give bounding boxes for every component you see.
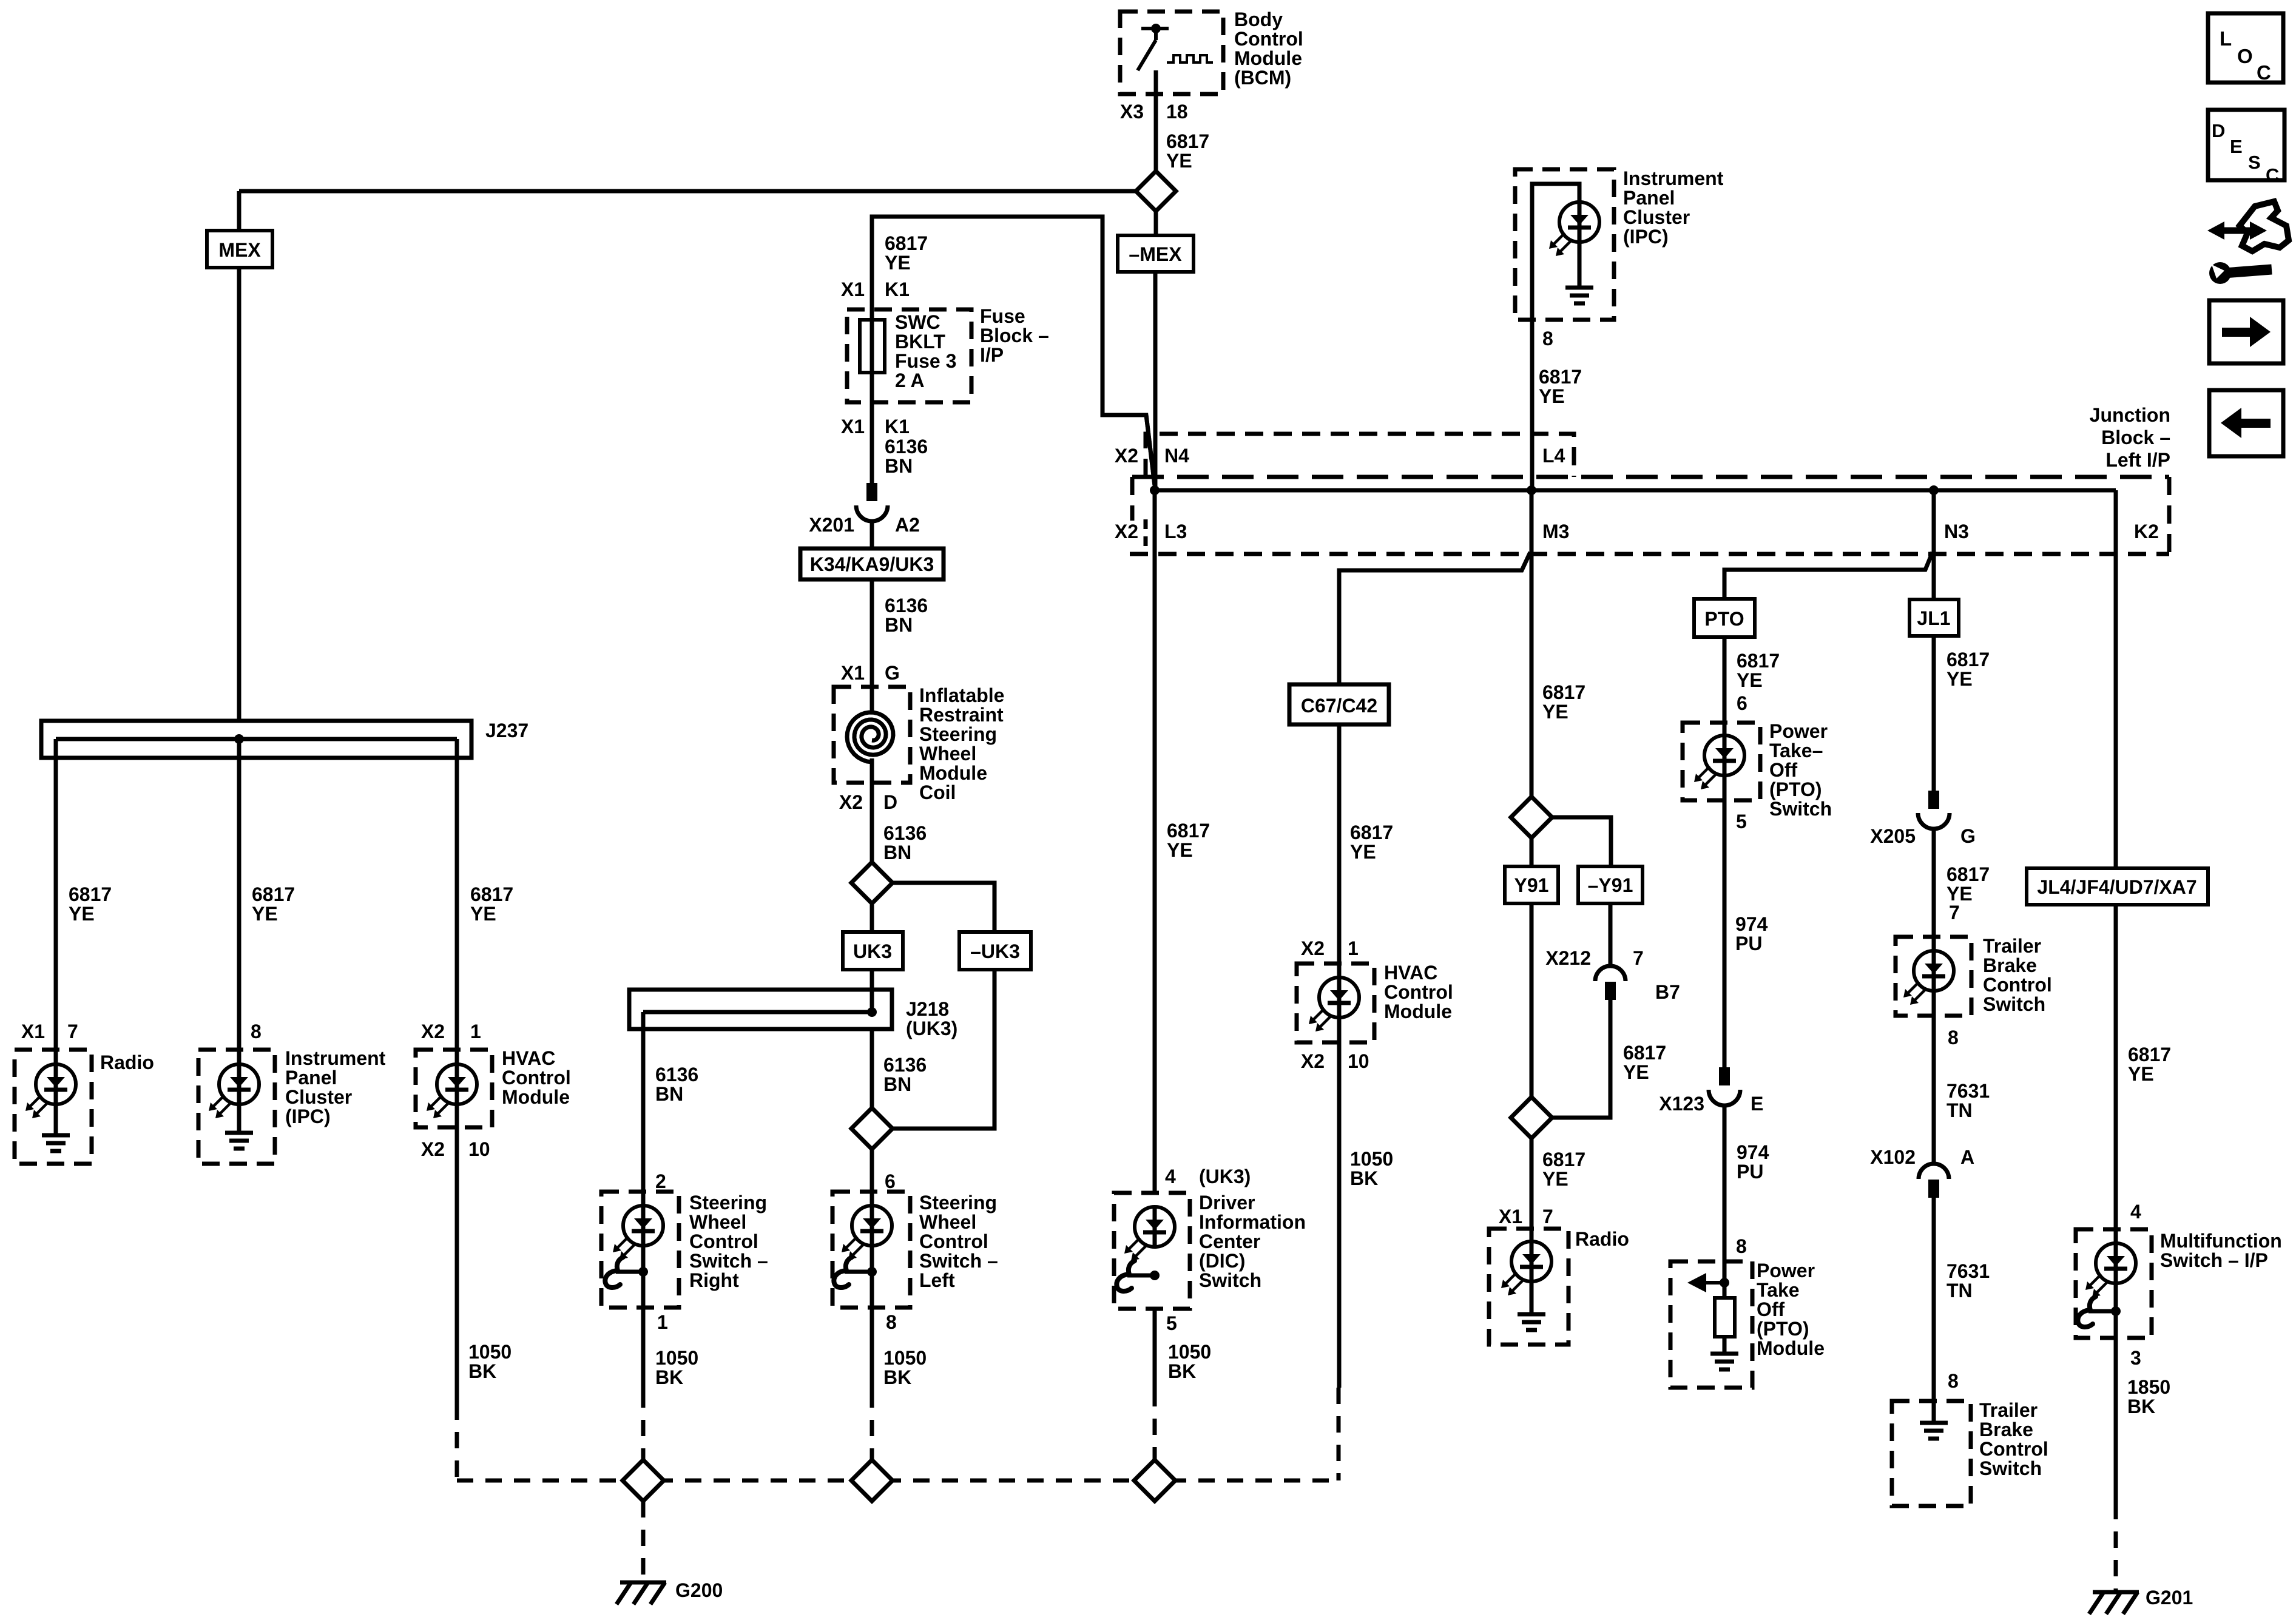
svg-text:X1: X1 — [1499, 1206, 1522, 1227]
svg-text:6136: 6136 — [885, 436, 928, 457]
svg-text:JL1: JL1 — [1917, 607, 1950, 629]
svg-text:7631: 7631 — [1947, 1080, 1990, 1102]
svg-text:Fuse: Fuse — [980, 305, 1025, 327]
svg-text:X2: X2 — [1301, 1050, 1325, 1072]
instrument panel cluster dashed box (top right) — [1515, 169, 1614, 320]
label Power Take-Off (PTO) Switch — [1769, 720, 1832, 820]
pin label 7 at trailer brake switch — [1949, 902, 1960, 923]
svg-text:6817: 6817 — [1539, 366, 1582, 388]
svg-text:YE: YE — [885, 252, 911, 274]
svg-text:Trailer: Trailer — [1979, 1399, 2038, 1421]
wire 6136 BN coil to UK3 diamond — [870, 783, 874, 863]
pin label 6 at PTO switch — [1737, 692, 1747, 714]
svg-text:YE: YE — [252, 903, 278, 925]
wire Y91 to merge diamond — [1530, 903, 1534, 1097]
svg-text:Brake: Brake — [1979, 1419, 2033, 1440]
wire label 1050 BK (HVAC right) — [1350, 1148, 1393, 1189]
svg-text:5: 5 — [1166, 1312, 1177, 1334]
svg-text:Wheel: Wheel — [919, 743, 976, 765]
svg-text:6817: 6817 — [1350, 822, 1393, 843]
wire 1050 BK below SWC right — [641, 1308, 646, 1391]
svg-text:Control: Control — [1234, 28, 1303, 50]
label Junction Block - Left I/P — [2090, 404, 2170, 471]
wire 7631 TN X102 to trailer brake ground — [1932, 1197, 1936, 1401]
svg-text:HVAC: HVAC — [1384, 962, 1437, 984]
svg-text:Switch: Switch — [1983, 993, 2045, 1015]
svg-text:G: G — [885, 662, 900, 684]
RPO code box -Y91 — [1578, 866, 1643, 903]
svg-text:7: 7 — [1949, 902, 1960, 923]
svg-text:Radio: Radio — [1575, 1228, 1629, 1250]
svg-text:Control: Control — [1384, 981, 1453, 1003]
wire 1050 BK below HVAC right — [1337, 1042, 1342, 1388]
svg-text:K2: K2 — [2134, 521, 2159, 542]
svg-text:BK: BK — [1168, 1360, 1196, 1382]
instrument panel cluster dashed box (left) — [198, 1050, 275, 1164]
svg-text:6817: 6817 — [2128, 1044, 2171, 1065]
svg-text:X2: X2 — [421, 1138, 445, 1160]
svg-text:I/P: I/P — [980, 344, 1004, 366]
junction block terminal label L4 — [1542, 445, 1565, 467]
svg-text:BK: BK — [1350, 1167, 1378, 1189]
svg-text:2 A: 2 A — [895, 370, 925, 391]
svg-text:(PTO): (PTO) — [1757, 1318, 1809, 1340]
svg-text:BK: BK — [883, 1366, 911, 1388]
svg-text:G201: G201 — [2146, 1587, 2193, 1609]
svg-text:YE: YE — [1350, 841, 1376, 863]
icon hand with wrench — [2207, 201, 2289, 284]
svg-text:MEX: MEX — [218, 239, 261, 261]
svg-text:X2: X2 — [421, 1021, 445, 1042]
svg-text:YE: YE — [1167, 839, 1193, 861]
svg-text:8: 8 — [1542, 328, 1553, 349]
dashed ground wire from HVAC left to ground bus — [455, 1403, 459, 1480]
wire label 1850 BK — [2127, 1376, 2170, 1417]
connector X205 pin G — [1918, 791, 1950, 829]
svg-text:Left I/P: Left I/P — [2105, 449, 2170, 471]
svg-text:C: C — [2257, 61, 2271, 84]
off-page splice diamond at BCM feed — [1136, 171, 1176, 211]
wire label 7631 TN above X102 — [1947, 1080, 1990, 1121]
wire 6817 YE JL1 to X205 — [1932, 636, 1936, 791]
label HVAC Control Module (left) — [502, 1047, 571, 1108]
wire 6817 YE IPC to junction block L4 — [1530, 320, 1535, 490]
Radio dashed box — [15, 1050, 92, 1164]
DIC switch backlight lamp — [1124, 1207, 1175, 1261]
wire 1050 BK from HVAC control module — [455, 1127, 459, 1403]
svg-text:PU: PU — [1737, 1161, 1763, 1183]
pin label 8 below IPC top — [1542, 328, 1553, 349]
junction block upper dashed strip — [1146, 434, 1574, 477]
trailer brake control switch ground dashed box — [1892, 1401, 1971, 1506]
BCM label text — [1234, 8, 1303, 89]
RPO code box C67/C42 — [1289, 684, 1389, 724]
wire label 6136 BN (SWC left) — [883, 1054, 927, 1095]
svg-text:974: 974 — [1735, 913, 1768, 935]
junction block internal bus — [1150, 485, 2116, 495]
fuse block I/P dashed box — [847, 309, 971, 402]
svg-text:6817: 6817 — [1542, 681, 1585, 703]
svg-text:L: L — [2220, 27, 2232, 50]
svg-text:C67/C42: C67/C42 — [1301, 695, 1377, 717]
label Instrument Panel Cluster (IPC) top — [1623, 167, 1724, 248]
RPO code box Y91 — [1505, 838, 1558, 903]
pin labels X1 | 7 at Radio right — [1499, 1206, 1553, 1227]
wire label 6817 YE (JL1 drop) — [1947, 649, 1990, 690]
coil spiral symbol — [847, 687, 893, 783]
svg-text:Center: Center — [1199, 1230, 1260, 1252]
wire from -UK3 around to lower diamond — [893, 970, 994, 1129]
svg-text:Cluster: Cluster — [1623, 206, 1690, 228]
PTO module internal arrow input — [1687, 1261, 1729, 1292]
wire 6817 YE from MEX to splice pack J237 — [237, 268, 241, 721]
svg-text:(IPC): (IPC) — [285, 1106, 331, 1127]
svg-text:Steering: Steering — [919, 1192, 997, 1214]
svg-text:B7: B7 — [1655, 981, 1680, 1003]
Radio right backlight lamp — [1501, 1229, 1551, 1314]
SWC right backlight lamp — [613, 1192, 663, 1308]
svg-text:1050: 1050 — [1168, 1341, 1211, 1363]
svg-text:X102: X102 — [1870, 1146, 1916, 1168]
multifunction switch dashed box — [2076, 1229, 2152, 1338]
svg-text:Block –: Block – — [2101, 427, 2170, 448]
svg-text:Off: Off — [1757, 1298, 1785, 1320]
fuse label SWC BKLT Fuse 3 2 A — [895, 311, 956, 391]
svg-text:6817: 6817 — [1947, 863, 1990, 885]
svg-text:–Y91: –Y91 — [1588, 874, 1633, 896]
svg-text:Block –: Block – — [980, 325, 1049, 346]
-MEX circuit code box — [1118, 235, 1194, 272]
svg-text:6136: 6136 — [883, 1054, 927, 1076]
diagonal wire into junction block terminal N4 — [1146, 415, 1155, 485]
wire label 6817 YE (-Y91 branch) — [1623, 1042, 1666, 1083]
svg-text:HVAC: HVAC — [502, 1047, 555, 1069]
svg-text:YE: YE — [1947, 668, 1973, 690]
svg-text:BN: BN — [883, 842, 911, 863]
wire 974 PU PTO switch to X123 — [1723, 800, 1727, 1068]
PTO module internal ground — [1710, 1354, 1738, 1369]
svg-text:X205: X205 — [1870, 825, 1916, 847]
steering wheel control switch right dashed box — [601, 1192, 679, 1308]
svg-text:Steering: Steering — [689, 1192, 767, 1214]
svg-text:Take–: Take– — [1769, 740, 1823, 761]
wire 6817 YE from BCM X3-18 down to splice diamond — [1154, 70, 1158, 171]
svg-text:18: 18 — [1166, 101, 1188, 123]
splice pack J237 outer box — [41, 721, 471, 758]
label Instrument Panel Cluster (IPC) — [285, 1047, 386, 1127]
wire 6817 YE X205 to trailer brake control switch — [1932, 829, 1936, 937]
svg-text:M3: M3 — [1542, 521, 1569, 542]
svg-text:X2: X2 — [839, 791, 863, 813]
svg-text:BN: BN — [883, 1073, 911, 1095]
svg-text:Left: Left — [919, 1269, 955, 1291]
svg-text:Control: Control — [502, 1067, 571, 1089]
svg-text:8: 8 — [1736, 1235, 1747, 1257]
svg-text:Control: Control — [919, 1230, 988, 1252]
svg-text:Power: Power — [1769, 720, 1828, 742]
svg-text:Steering: Steering — [919, 723, 997, 745]
svg-text:Take: Take — [1757, 1279, 1800, 1301]
svg-text:UK3: UK3 — [853, 940, 892, 962]
svg-text:Coil: Coil — [919, 781, 956, 803]
svg-text:Driver: Driver — [1199, 1192, 1255, 1214]
junction block terminal label N3 — [1944, 521, 1969, 542]
svg-text:Radio: Radio — [100, 1052, 154, 1073]
wire 6817 YE J237 to Radio pin 7 — [54, 739, 58, 1050]
SWC left backlight lamp — [842, 1192, 892, 1308]
svg-text:6817: 6817 — [69, 883, 112, 905]
svg-text:Trailer: Trailer — [1983, 935, 2041, 957]
wire label 1050 BK (SWC right) — [655, 1347, 698, 1388]
svg-text:Instrument: Instrument — [1623, 167, 1724, 189]
wire label 974 PU below X123 — [1737, 1141, 1769, 1183]
wire 6817 YE -MEX to junction block N4 and bus — [1153, 272, 1158, 490]
label Fuse Block - I/P — [980, 305, 1049, 366]
svg-text:Multifunction: Multifunction — [2160, 1230, 2282, 1252]
BCM internal pulse waveform symbol — [1167, 55, 1213, 62]
splice diamond above Y91 — [1511, 797, 1552, 838]
RPO code box K34/KA9/UK3 — [800, 549, 944, 579]
wire branch to -Y91 box — [1552, 817, 1611, 866]
svg-text:1050: 1050 — [1350, 1148, 1393, 1170]
trailer brake control switch backlight lamp — [1903, 937, 1954, 1016]
svg-text:K34/KA9/UK3: K34/KA9/UK3 — [810, 553, 934, 575]
wire label 6136 BN below coil — [883, 822, 927, 863]
svg-text:Switch: Switch — [1199, 1269, 1261, 1291]
svg-text:S: S — [2248, 152, 2261, 173]
wire label 1050 BK (HVAC left) — [468, 1341, 512, 1382]
svg-text:10: 10 — [1348, 1050, 1369, 1072]
svg-text:BK: BK — [468, 1360, 496, 1382]
svg-text:7: 7 — [1633, 947, 1644, 969]
splice pack J237 internal bus — [56, 734, 457, 744]
svg-text:1: 1 — [470, 1021, 481, 1042]
ground splice diamond SWC right — [623, 1460, 664, 1501]
SWC left switch hook — [834, 1257, 877, 1288]
ground splice diamond DIC — [1134, 1460, 1175, 1501]
PTO module resistor — [1715, 1283, 1735, 1354]
merge diamond above Radio (right) — [1511, 1097, 1552, 1138]
svg-text:Control: Control — [1979, 1438, 2048, 1460]
svg-text:YE: YE — [1623, 1061, 1649, 1083]
DIC switch hook — [1116, 1261, 1160, 1291]
svg-text:Fuse 3: Fuse 3 — [895, 350, 956, 372]
wire: long horizontal feed to MEX — [239, 189, 1136, 194]
pin label 2 at SWC right — [655, 1170, 666, 1192]
wire 7631 TN trailer brake switch to X102 — [1932, 1016, 1936, 1164]
RPO code box UK3 — [843, 903, 903, 970]
svg-text:(UK3): (UK3) — [906, 1018, 957, 1039]
svg-text:6136: 6136 — [883, 822, 927, 844]
svg-text:1050: 1050 — [883, 1347, 927, 1369]
BCM internal switch contact — [1138, 24, 1169, 70]
dashed wire to G201 — [2114, 1503, 2118, 1590]
wire label 6817 YE (C67 drop) — [1350, 822, 1393, 863]
svg-text:X1: X1 — [841, 416, 865, 437]
RPO code box -UK3 — [959, 932, 1031, 970]
svg-text:Off: Off — [1769, 759, 1798, 781]
svg-text:8: 8 — [1948, 1027, 1959, 1048]
IPC top internal ground — [1565, 288, 1593, 303]
svg-text:YE: YE — [470, 903, 496, 925]
svg-text:Right: Right — [689, 1269, 739, 1291]
svg-text:O: O — [2237, 45, 2253, 67]
svg-text:974: 974 — [1737, 1141, 1769, 1163]
label HVAC Control Module (right) — [1384, 962, 1453, 1022]
svg-text:6817: 6817 — [1166, 130, 1209, 152]
svg-text:PU: PU — [1735, 933, 1762, 954]
driver information center DIC switch dashed box — [1114, 1193, 1190, 1309]
svg-text:YE: YE — [1166, 150, 1192, 172]
pin labels X2 | D below coil — [839, 791, 897, 813]
label Steering Wheel Control Switch - Left — [919, 1192, 998, 1291]
svg-text:8: 8 — [886, 1311, 897, 1333]
body control module BCM dashed box — [1120, 12, 1223, 94]
inflatable restraint steering wheel module coil dashed box — [834, 687, 910, 783]
Radio backlight lamp — [25, 1050, 76, 1135]
svg-text:K1: K1 — [885, 279, 910, 300]
svg-text:Cluster: Cluster — [285, 1086, 352, 1108]
pin labels X1 | K1 above fuse — [841, 279, 910, 300]
svg-text:X1: X1 — [841, 279, 865, 300]
junction block terminal label M3 — [1542, 521, 1569, 542]
wire splice diamond down to -MEX box — [1154, 211, 1158, 235]
svg-text:Wheel: Wheel — [689, 1211, 746, 1233]
svg-text:Control: Control — [1983, 974, 2052, 996]
connector X212 pin 7 / B7 — [1595, 966, 1626, 1000]
dashed wire diamond to G200 — [641, 1501, 646, 1575]
multifunction switch backlight lamp — [2085, 1229, 2136, 1338]
Radio right internal ground — [1518, 1314, 1545, 1330]
svg-text:Instrument: Instrument — [285, 1047, 386, 1069]
svg-text:A: A — [1960, 1146, 1974, 1168]
wire label 6817 YE below BCM — [1166, 130, 1209, 172]
wire label 1050 BK (SWC left) — [883, 1347, 927, 1388]
svg-text:Module: Module — [1757, 1337, 1825, 1359]
pin label 8 below SWC left — [886, 1311, 897, 1333]
label B7 — [1655, 981, 1680, 1003]
svg-text:(IPC): (IPC) — [1623, 226, 1669, 248]
svg-text:C: C — [2266, 164, 2279, 186]
diagonal wire from junction block M3 to C67/C42 branch — [1339, 552, 1530, 684]
wire 6817 YE JL4 box to multifunction switch — [2114, 905, 2118, 1229]
svg-text:6817: 6817 — [1623, 1042, 1666, 1064]
label Steering Wheel Control Switch - Right — [689, 1192, 768, 1291]
svg-text:BN: BN — [655, 1083, 683, 1105]
HVAC control module backlight lamp (left) — [427, 1050, 477, 1127]
wire 974 PU X123 to PTO module — [1723, 1106, 1727, 1261]
wire label 6817 YE (DIC drop) — [1167, 820, 1210, 861]
pin label 1 below SWC right — [657, 1311, 668, 1333]
wire -Y91 to connector X212 — [1609, 903, 1613, 966]
svg-text:BK: BK — [2127, 1396, 2155, 1417]
svg-text:Body: Body — [1234, 8, 1283, 30]
svg-text:PTO: PTO — [1704, 608, 1744, 630]
wire label 6817 YE (X205 drop) — [1947, 863, 1990, 905]
wire 6817 YE J237 to IPC pin 8 — [237, 739, 241, 1050]
junction block lower dashed strip — [1130, 477, 2169, 554]
Radio dashed box (right) — [1489, 1229, 1568, 1345]
svg-text:YE: YE — [2128, 1063, 2154, 1085]
svg-text:A2: A2 — [895, 514, 920, 536]
HVAC control module dashed box (left) — [416, 1050, 492, 1127]
wire label 6817 YE (PTO drop) — [1737, 650, 1780, 691]
svg-text:8: 8 — [251, 1021, 262, 1042]
pin label 8 below trailer brake switch — [1948, 1027, 1959, 1048]
svg-text:X123: X123 — [1659, 1093, 1704, 1115]
wire label 6817 YE above fuse — [885, 232, 928, 274]
wire 6817 YE PTO box to PTO switch pin 6 — [1723, 637, 1727, 723]
pin labels X2 | 10 below HVAC control module — [421, 1138, 490, 1160]
svg-text:X2: X2 — [1115, 445, 1138, 467]
power take-off PTO switch dashed box — [1683, 723, 1760, 800]
wire UK3 box into splice pack J218 — [870, 970, 874, 1012]
svg-text:K1: K1 — [885, 416, 910, 437]
svg-text:Restraint: Restraint — [919, 704, 1004, 726]
label Driver Information Center (DIC) Switch — [1199, 1192, 1306, 1291]
splice pack J218 outer box — [629, 990, 892, 1029]
wire label 6817 YE (IPC drop) — [252, 883, 295, 925]
labels X123 | E — [1659, 1093, 1763, 1115]
svg-text:Y91: Y91 — [1514, 874, 1549, 896]
wire 6817 YE from splice to fuse block (up-over link) — [872, 217, 1155, 485]
RPO code box PTO — [1694, 599, 1755, 637]
svg-text:Inflatable: Inflatable — [919, 684, 1004, 706]
dashed ground wire SWC left — [870, 1391, 874, 1460]
svg-text:X1: X1 — [841, 662, 865, 684]
ground splice diamond SWC left — [851, 1460, 893, 1501]
svg-text:Control: Control — [689, 1230, 758, 1252]
svg-text:Module: Module — [919, 762, 987, 784]
labels X205 | G — [1870, 825, 1976, 847]
svg-text:X2: X2 — [1115, 521, 1138, 542]
RPO code box JL1 — [1909, 599, 1959, 636]
IPC top backlight lamp — [1549, 202, 1599, 288]
svg-text:Switch: Switch — [1979, 1457, 2042, 1479]
wire diamond to Radio right — [1530, 1138, 1534, 1229]
pin label 5 below PTO switch — [1736, 811, 1747, 832]
svg-text:L3: L3 — [1164, 521, 1187, 542]
svg-text:(UK3): (UK3) — [1199, 1166, 1251, 1187]
svg-text:BKLT: BKLT — [895, 331, 945, 353]
svg-text:6136: 6136 — [655, 1064, 698, 1085]
ground G200 — [616, 1582, 666, 1604]
svg-text:Brake: Brake — [1983, 954, 2037, 976]
wire 1850 BK below multifunction switch — [2114, 1338, 2118, 1503]
svg-text:D: D — [2212, 120, 2225, 141]
svg-text:N3: N3 — [1944, 521, 1969, 542]
svg-text:X2: X2 — [1301, 937, 1325, 959]
wire 6136 BN J218 to lower diamond — [870, 1029, 874, 1108]
dashed ground wire SWC right — [641, 1391, 646, 1460]
connector X102 pin A — [1919, 1164, 1949, 1198]
svg-text:6817: 6817 — [1737, 650, 1780, 672]
wire 1050 BK below SWC left — [870, 1308, 874, 1391]
wire label 6817 YE (K2 drop) — [2128, 1044, 2171, 1085]
svg-text:G200: G200 — [675, 1579, 723, 1601]
connector X123 pin E — [1709, 1067, 1740, 1106]
wire label 6817 YE (M3 drop) — [1542, 681, 1585, 723]
icon box LOC — [2208, 13, 2283, 84]
label Radio — [100, 1052, 154, 1073]
svg-text:1: 1 — [657, 1311, 668, 1333]
svg-text:6: 6 — [1737, 692, 1747, 714]
labels X102 | A — [1870, 1146, 1974, 1168]
svg-text:N4: N4 — [1164, 445, 1189, 467]
svg-text:YE: YE — [69, 903, 95, 925]
svg-text:1050: 1050 — [468, 1341, 512, 1363]
IPC top internal wiring — [1532, 184, 1579, 320]
